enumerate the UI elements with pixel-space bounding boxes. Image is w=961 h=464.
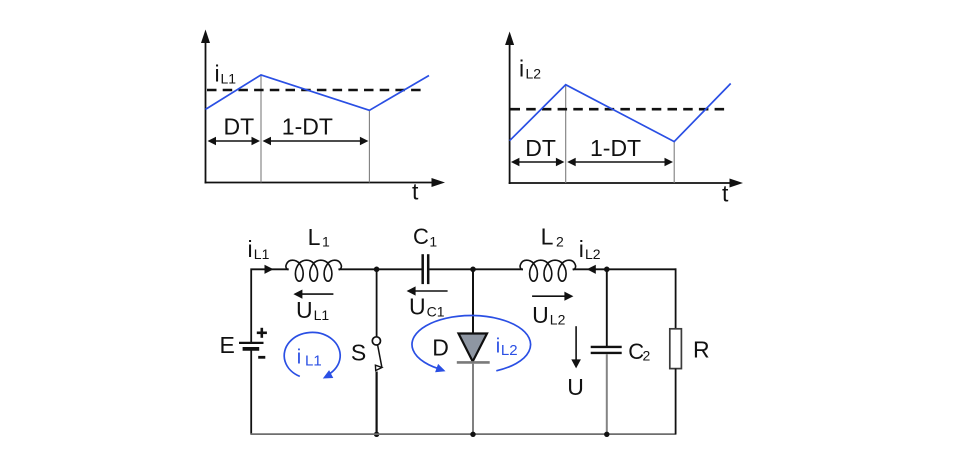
svg-text:2: 2 xyxy=(643,348,651,364)
wire E down to bottom-left corner and bottom wire to S xyxy=(250,349,252,434)
svg-text:1-DT: 1-DT xyxy=(590,135,641,161)
plot2 DT interval arrow xyxy=(511,158,565,166)
plot2 waveform iL2 xyxy=(510,84,731,142)
svg-text:L: L xyxy=(541,224,554,250)
svg-text:i: i xyxy=(496,335,500,357)
label L2 xyxy=(541,224,564,250)
voltage arrow UL2 xyxy=(532,292,573,301)
resistor R body xyxy=(670,329,682,369)
plot1 DT interval arrow xyxy=(208,137,261,145)
svg-text:U: U xyxy=(296,297,313,323)
svg-text:U: U xyxy=(532,302,549,328)
plot2 dashed average line xyxy=(511,108,728,111)
switch S wire to bottom node xyxy=(376,372,378,435)
plot1 1-DT interval arrow xyxy=(263,137,369,145)
voltage arrow UL1 xyxy=(293,290,333,299)
wire top right corner down to R xyxy=(675,268,677,328)
svg-text:C: C xyxy=(413,224,429,249)
diode D anode wire xyxy=(472,269,474,333)
svg-text:L2: L2 xyxy=(501,342,518,359)
diode D triangle xyxy=(459,334,488,362)
svg-text:i: i xyxy=(519,55,524,81)
plot1 waveform iL1 xyxy=(206,75,430,110)
plot1 y-axis xyxy=(201,30,210,184)
battery source E xyxy=(239,343,264,349)
svg-text:R: R xyxy=(693,337,710,363)
switch S circle xyxy=(372,337,380,345)
label C2 xyxy=(628,339,650,364)
svg-text:1: 1 xyxy=(322,234,330,250)
label UL2 xyxy=(532,302,565,328)
svg-text:2: 2 xyxy=(556,234,564,250)
svg-text:U: U xyxy=(409,294,426,320)
wire top-left from E to L1 xyxy=(251,269,289,343)
svg-text:S: S xyxy=(351,339,366,365)
svg-text:i: i xyxy=(579,236,584,262)
node dot top of switch xyxy=(374,267,380,273)
svg-text:i: i xyxy=(248,236,253,262)
diode D cathode bar xyxy=(457,361,490,364)
svg-text:L2: L2 xyxy=(526,65,542,81)
inductor L1 xyxy=(286,260,342,281)
label L1 xyxy=(308,224,330,250)
capacitor C2 bottom wire xyxy=(606,354,608,434)
switch S wire from top node xyxy=(376,269,378,337)
label iL1 top left xyxy=(248,236,270,262)
current arrow iL1 on top wire xyxy=(265,265,274,274)
switch S blade with arrowhead xyxy=(375,345,382,371)
battery plus sign xyxy=(257,328,267,338)
svg-text:i: i xyxy=(215,61,220,87)
svg-text:L1: L1 xyxy=(314,307,330,323)
svg-text:t: t xyxy=(412,179,419,205)
wire bottom S to D xyxy=(250,433,676,435)
svg-text:C1: C1 xyxy=(427,303,445,319)
svg-text:E: E xyxy=(220,332,235,358)
svg-text:L1: L1 xyxy=(254,246,270,262)
label UL1 xyxy=(296,297,329,323)
svg-text:t: t xyxy=(722,181,729,207)
blue label iL2 xyxy=(496,335,518,359)
plot1 vertical line at DT xyxy=(260,75,262,183)
svg-text:U: U xyxy=(567,374,584,400)
wire L2 to right corner xyxy=(573,268,677,270)
wire R down to bottom right corner xyxy=(675,369,677,435)
plot2 1-DT interval arrow xyxy=(567,158,673,166)
svg-text:1: 1 xyxy=(429,233,437,249)
svg-text:L: L xyxy=(308,224,321,250)
current arrow iL2 on top wire xyxy=(587,265,596,274)
voltage arrow U (output) xyxy=(571,326,581,368)
svg-text:i: i xyxy=(297,346,301,368)
svg-text:DT: DT xyxy=(525,135,556,161)
svg-text:L2: L2 xyxy=(550,311,566,327)
capacitor C2 plates xyxy=(591,347,622,353)
blue loop iL2 around diode xyxy=(412,316,531,373)
node dot bottom of switch xyxy=(374,432,379,437)
wire C1 to L2 xyxy=(429,268,523,270)
plot1 x-axis xyxy=(205,178,445,187)
plot1 dashed average line xyxy=(207,89,424,92)
voltage arrow UC1 xyxy=(407,286,448,295)
battery minus sign xyxy=(258,356,265,359)
plot2 x-axis xyxy=(509,179,743,188)
svg-text:DT: DT xyxy=(224,114,255,140)
label iL2 top right xyxy=(579,236,601,262)
plot2 y-axis xyxy=(505,32,514,185)
label UC1 xyxy=(409,294,445,320)
plot1 label iL1 xyxy=(215,61,237,87)
svg-text:1-DT: 1-DT xyxy=(282,114,333,140)
capacitor C1 xyxy=(423,254,429,284)
node dot bottom of diode xyxy=(470,432,475,437)
plot1 vertical line at period end xyxy=(368,110,370,183)
plot2 vertical line at DT xyxy=(565,85,567,183)
svg-text:L2: L2 xyxy=(585,246,601,262)
plot2 vertical line at period end xyxy=(673,142,675,183)
blue loop iL1 xyxy=(284,332,340,378)
capacitor C2 top wire xyxy=(606,269,608,346)
svg-text:L1: L1 xyxy=(221,70,237,86)
svg-text:D: D xyxy=(432,335,449,361)
node dot top of diode xyxy=(470,267,476,273)
plot2 label iL2 xyxy=(519,55,541,81)
blue label iL1 xyxy=(297,346,322,369)
label C1 xyxy=(413,224,437,249)
inductor L2 xyxy=(520,260,576,281)
wire L1 to C1 xyxy=(338,268,421,270)
node dot bottom of C2 xyxy=(604,432,609,437)
diode D cathode wire xyxy=(472,364,474,434)
node dot top of C2 xyxy=(604,267,610,273)
svg-text:L1: L1 xyxy=(305,353,322,370)
